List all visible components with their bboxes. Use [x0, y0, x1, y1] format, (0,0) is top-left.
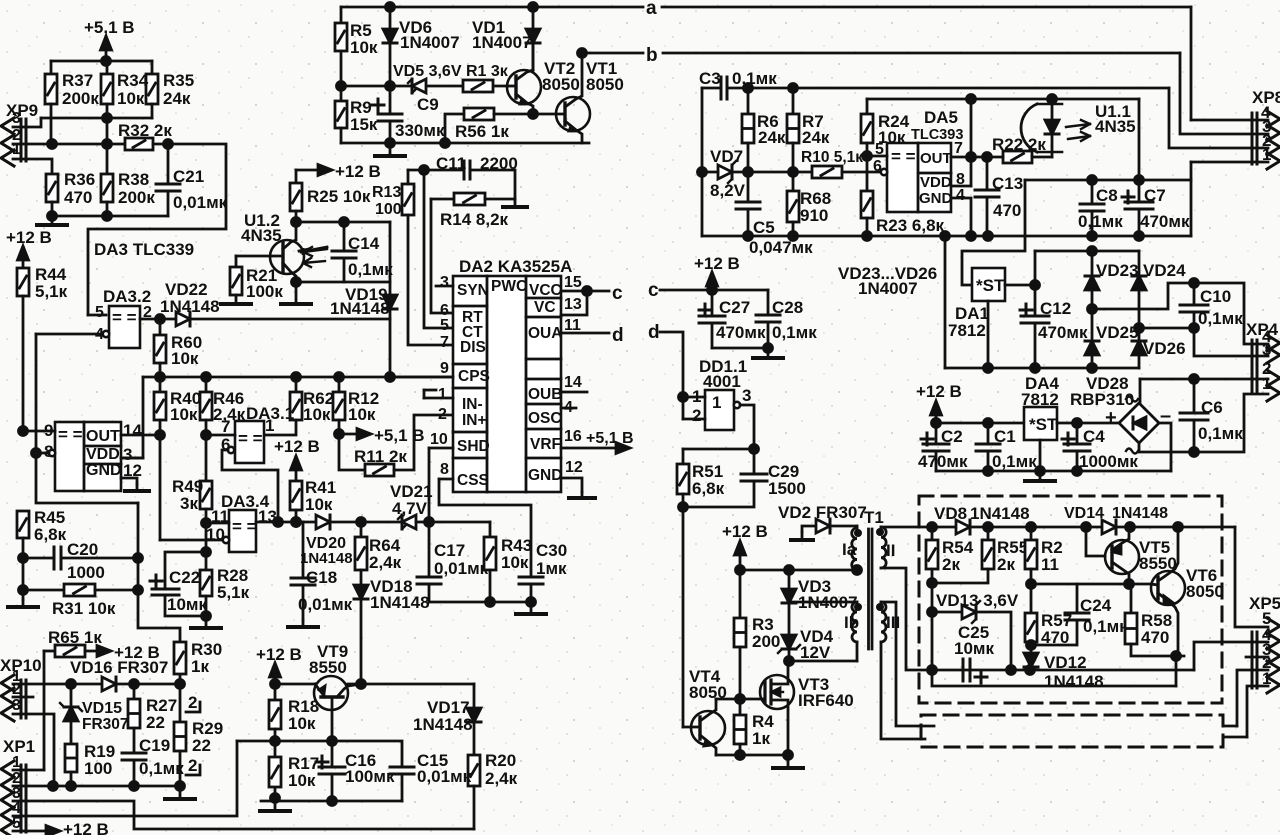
svg-text:1500: 1500	[768, 479, 806, 498]
svg-text:+5,1 В: +5,1 В	[374, 426, 425, 445]
svg-text:DA2 KA3525A: DA2 KA3525A	[459, 257, 572, 276]
svg-text:910: 910	[800, 206, 828, 225]
svg-text:330мк: 330мк	[395, 121, 445, 140]
svg-text:VC: VC	[534, 299, 556, 316]
svg-text:6,8к: 6,8к	[34, 525, 67, 544]
svg-text:+12 В: +12 В	[916, 382, 962, 401]
svg-text:14: 14	[123, 421, 142, 440]
svg-text:R38: R38	[118, 170, 149, 189]
svg-text:2к: 2к	[942, 555, 960, 574]
svg-text:= =: = =	[891, 147, 916, 166]
svg-text:5: 5	[95, 304, 104, 321]
svg-text:VRF: VRF	[530, 436, 561, 453]
svg-text:R11 2к: R11 2к	[354, 447, 407, 466]
svg-text:470: 470	[1141, 628, 1169, 647]
svg-text:1N4148: 1N4148	[300, 550, 353, 567]
svg-text:OUA: OUA	[528, 325, 562, 342]
svg-text:FR307: FR307	[82, 716, 129, 733]
svg-text:11: 11	[1041, 555, 1059, 574]
svg-text:VD25: VD25	[1096, 323, 1139, 342]
svg-text:C13: C13	[992, 174, 1023, 193]
svg-text:10к: 10к	[305, 495, 333, 514]
svg-text:OUB: OUB	[528, 386, 562, 403]
svg-text:+12 В: +12 В	[63, 820, 109, 835]
svg-text:R56 1к: R56 1к	[455, 122, 509, 141]
svg-text:PWC: PWC	[491, 278, 527, 295]
svg-text:5,1к: 5,1к	[35, 282, 68, 301]
svg-text:*ST: *ST	[976, 276, 1005, 295]
svg-text:C4: C4	[1083, 427, 1105, 446]
svg-text:470мк: 470мк	[918, 452, 968, 471]
svg-text:1N4148: 1N4148	[330, 299, 390, 318]
svg-text:10мк: 10мк	[954, 639, 994, 658]
svg-text:SYN: SYN	[457, 282, 489, 299]
svg-text:1N4007: 1N4007	[858, 279, 918, 298]
svg-text:7: 7	[954, 140, 963, 157]
svg-text:a: a	[646, 0, 657, 19]
svg-text:22: 22	[192, 736, 211, 755]
svg-text:IN+: IN+	[462, 412, 487, 429]
svg-text:15к: 15к	[350, 115, 378, 134]
svg-text:VDD: VDD	[920, 174, 952, 191]
svg-text:470: 470	[64, 188, 92, 207]
svg-text:0,01мк: 0,01мк	[298, 595, 353, 614]
svg-text:C17: C17	[434, 541, 465, 560]
svg-text:C21: C21	[173, 167, 204, 186]
svg-text:+12 В: +12 В	[6, 228, 52, 247]
svg-text:VD12: VD12	[1044, 653, 1087, 672]
svg-text:+12 В: +12 В	[722, 522, 768, 541]
svg-text:R25 10к: R25 10к	[307, 187, 371, 206]
svg-text:200к: 200к	[62, 89, 99, 108]
svg-text:VCC: VCC	[529, 282, 562, 299]
svg-text:c: c	[648, 280, 659, 301]
svg-text:R31 10к: R31 10к	[52, 599, 116, 618]
svg-text:VD5 3,6V: VD5 3,6V	[393, 63, 462, 80]
svg-text:1N4007: 1N4007	[472, 33, 532, 52]
svg-text:10: 10	[430, 431, 448, 448]
svg-text:4001: 4001	[703, 372, 741, 391]
svg-text:C28: C28	[772, 298, 803, 317]
svg-text:+12 В: +12 В	[256, 645, 302, 664]
svg-text:C7: C7	[1144, 186, 1166, 205]
svg-text:13: 13	[564, 296, 582, 313]
svg-text:R23 6,8к: R23 6,8к	[876, 216, 945, 235]
svg-text:24к: 24к	[163, 89, 191, 108]
svg-text:DA5: DA5	[924, 108, 958, 127]
svg-text:0,1мк: 0,1мк	[1078, 212, 1123, 231]
svg-text:1: 1	[438, 386, 447, 403]
svg-text:CSS: CSS	[457, 472, 489, 489]
svg-text:SHD: SHD	[457, 438, 490, 455]
svg-text:Ib: Ib	[844, 613, 859, 632]
svg-text:C30: C30	[536, 541, 567, 560]
svg-text:c: c	[612, 283, 623, 304]
svg-text:GND: GND	[919, 190, 953, 207]
svg-text:10к: 10к	[288, 714, 316, 733]
svg-text:0,1мк: 0,1мк	[992, 452, 1037, 471]
svg-text:10мк: 10мк	[167, 595, 207, 614]
svg-text:8050: 8050	[1186, 582, 1224, 601]
svg-text:2: 2	[188, 756, 197, 775]
svg-text:4N35: 4N35	[241, 226, 282, 245]
svg-text:GND: GND	[86, 462, 122, 479]
svg-text:12V: 12V	[800, 643, 831, 662]
svg-text:7812: 7812	[948, 321, 986, 340]
svg-text:VD14: VD14	[1064, 505, 1104, 522]
svg-text:8,2V: 8,2V	[710, 181, 746, 200]
svg-text:2,4к: 2,4к	[369, 553, 402, 572]
svg-text:VD2 FR307: VD2 FR307	[778, 503, 867, 522]
svg-text:4: 4	[956, 187, 965, 204]
svg-text:2: 2	[438, 406, 447, 423]
svg-text:R36: R36	[64, 170, 95, 189]
svg-text:100: 100	[84, 759, 112, 778]
svg-text:8: 8	[440, 461, 449, 478]
svg-text:R13: R13	[372, 184, 401, 201]
svg-text:VD7: VD7	[710, 147, 743, 166]
svg-text:d: d	[612, 325, 624, 346]
svg-text:II: II	[886, 541, 895, 560]
svg-text:470мк: 470мк	[1038, 323, 1088, 342]
svg-text:11: 11	[564, 317, 581, 334]
svg-text:R1 3к: R1 3к	[466, 63, 509, 80]
svg-text:C22: C22	[169, 568, 200, 587]
svg-text:+12 В: +12 В	[335, 162, 381, 181]
svg-text:R37: R37	[62, 71, 93, 90]
svg-text:470мк: 470мк	[716, 323, 766, 342]
svg-text:C6: C6	[1201, 398, 1223, 417]
svg-text:8550: 8550	[309, 658, 347, 677]
svg-text:7: 7	[440, 334, 449, 351]
svg-text:0,1мк: 0,1мк	[139, 759, 184, 778]
svg-text:1к: 1к	[191, 657, 209, 676]
svg-text:0,01мк: 0,01мк	[434, 559, 489, 578]
svg-text:4N35: 4N35	[1095, 117, 1136, 136]
svg-text:10к: 10к	[501, 553, 529, 572]
svg-text:C1: C1	[994, 427, 1016, 446]
svg-text:VD8: VD8	[934, 504, 967, 523]
svg-text:C9: C9	[417, 95, 439, 114]
svg-text:C3: C3	[699, 69, 721, 88]
svg-text:VDD: VDD	[86, 446, 120, 463]
svg-text:0,1мк: 0,1мк	[1198, 424, 1243, 443]
svg-text:5,1к: 5,1к	[217, 583, 250, 602]
svg-text:0,1мк: 0,1мк	[1198, 309, 1243, 328]
svg-text:OUT: OUT	[920, 150, 952, 167]
svg-text:VD26: VD26	[1143, 339, 1186, 358]
svg-text:10к: 10к	[348, 405, 376, 424]
svg-text:C12: C12	[1040, 299, 1071, 318]
svg-text:2,4к: 2,4к	[485, 769, 518, 788]
svg-text:CPS: CPS	[458, 368, 490, 385]
svg-text:2: 2	[188, 693, 197, 712]
svg-text:C5: C5	[753, 218, 775, 237]
svg-text:200к: 200к	[118, 188, 155, 207]
svg-text:3: 3	[742, 386, 751, 405]
svg-text:1N4148: 1N4148	[1112, 505, 1168, 522]
svg-text:2к: 2к	[997, 555, 1015, 574]
svg-text:1000: 1000	[67, 563, 105, 582]
svg-text:3: 3	[1262, 340, 1271, 359]
svg-text:100: 100	[375, 201, 402, 218]
svg-text:Ia: Ia	[842, 540, 857, 559]
svg-text:C19: C19	[139, 736, 170, 755]
svg-text:12: 12	[565, 459, 583, 476]
svg-text:0,1мк: 0,1мк	[772, 323, 817, 342]
svg-text:24к: 24к	[758, 128, 786, 147]
svg-text:0,01мк: 0,01мк	[417, 767, 472, 786]
svg-text:+12 В: +12 В	[694, 254, 740, 273]
svg-text:100к: 100к	[246, 282, 283, 301]
svg-text:DA3 TLC339: DA3 TLC339	[94, 240, 194, 259]
svg-text:= =: = =	[112, 308, 137, 327]
svg-text:IN-: IN-	[462, 396, 483, 413]
svg-text:0,1мк: 0,1мк	[1083, 617, 1128, 636]
svg-text:C24: C24	[1080, 596, 1112, 615]
svg-text:1: 1	[712, 393, 721, 412]
svg-text:C18: C18	[306, 568, 337, 587]
svg-text:10к: 10к	[303, 405, 331, 424]
svg-text:GND: GND	[528, 467, 562, 484]
svg-text:10к: 10к	[350, 38, 378, 57]
svg-text:1N4148: 1N4148	[370, 593, 430, 612]
svg-text:R10 5,1к: R10 5,1к	[801, 149, 863, 166]
svg-text:1к: 1к	[752, 729, 770, 748]
svg-text:III: III	[886, 613, 900, 632]
svg-text:d: d	[648, 322, 660, 343]
svg-text:XP9: XP9	[6, 101, 38, 120]
svg-text:+12 В: +12 В	[274, 437, 320, 456]
svg-text:10к: 10к	[171, 349, 199, 368]
svg-text:C20: C20	[67, 540, 98, 559]
svg-text:8050: 8050	[542, 75, 580, 94]
svg-text:15: 15	[564, 274, 582, 291]
svg-text:OUT: OUT	[86, 428, 120, 445]
svg-text:*ST: *ST	[1029, 415, 1058, 434]
svg-text:+5,1 В: +5,1 В	[84, 18, 135, 37]
svg-text:T1: T1	[864, 508, 884, 527]
svg-text:8050: 8050	[586, 75, 624, 94]
svg-text:16: 16	[564, 428, 582, 445]
svg-text:0,047мк: 0,047мк	[749, 238, 813, 257]
svg-text:7: 7	[221, 417, 230, 436]
svg-text:VD16 FR307: VD16 FR307	[70, 658, 168, 677]
svg-text:DIS: DIS	[460, 339, 486, 356]
svg-text:1N4007: 1N4007	[400, 33, 460, 52]
svg-text:0,1мк: 0,1мк	[348, 260, 393, 279]
svg-text:C2: C2	[941, 427, 963, 446]
svg-text:= =: = =	[238, 429, 263, 448]
svg-text:5: 5	[440, 317, 449, 334]
svg-text:0,1мк: 0,1мк	[732, 69, 777, 88]
svg-text:470: 470	[993, 201, 1021, 220]
svg-text:22: 22	[146, 713, 165, 732]
svg-text:1000мк: 1000мк	[1079, 452, 1138, 471]
svg-text:470мк: 470мк	[1140, 212, 1190, 231]
svg-text:C27: C27	[719, 298, 750, 317]
svg-text:14: 14	[564, 374, 582, 391]
svg-text:IRF640: IRF640	[798, 691, 854, 710]
svg-text:b: b	[646, 45, 658, 66]
svg-text:24к: 24к	[802, 128, 830, 147]
svg-text:R32 2к: R32 2к	[118, 121, 172, 140]
svg-text:1: 1	[265, 416, 274, 435]
svg-text:4,7V: 4,7V	[392, 499, 428, 518]
svg-text:0,01мк: 0,01мк	[173, 193, 228, 212]
svg-text:6,8к: 6,8к	[692, 479, 725, 498]
svg-text:+: +	[1105, 407, 1117, 429]
svg-text:R35: R35	[163, 71, 194, 90]
svg-text:2: 2	[692, 406, 701, 425]
svg-text:R20: R20	[485, 751, 516, 770]
svg-text:1N4148: 1N4148	[970, 504, 1030, 523]
svg-text:= =: = =	[232, 517, 257, 536]
svg-text:9: 9	[440, 360, 449, 377]
svg-text:10к: 10к	[117, 89, 145, 108]
svg-text:R14 8,2к: R14 8,2к	[440, 210, 509, 229]
svg-text:R34: R34	[117, 71, 149, 90]
svg-text:200: 200	[752, 632, 780, 651]
svg-text:3: 3	[440, 274, 449, 291]
svg-text:OSC: OSC	[528, 410, 562, 427]
svg-text:1N4148: 1N4148	[413, 715, 473, 734]
svg-text:VD15: VD15	[82, 700, 122, 717]
svg-text:1N4148: 1N4148	[1044, 672, 1104, 691]
svg-text:+5,1 В: +5,1 В	[586, 430, 634, 447]
svg-text:1мк: 1мк	[536, 559, 567, 578]
svg-text:100мк: 100мк	[345, 767, 395, 786]
svg-text:10к: 10к	[170, 405, 198, 424]
svg-text:C10: C10	[1200, 287, 1231, 306]
svg-text:C14: C14	[348, 234, 380, 253]
svg-text:3к: 3к	[180, 494, 198, 513]
svg-text:C8: C8	[1096, 186, 1118, 205]
svg-text:= =: = =	[58, 425, 83, 444]
svg-text:10к: 10к	[288, 771, 316, 790]
svg-text:VD24: VD24	[1143, 261, 1186, 280]
